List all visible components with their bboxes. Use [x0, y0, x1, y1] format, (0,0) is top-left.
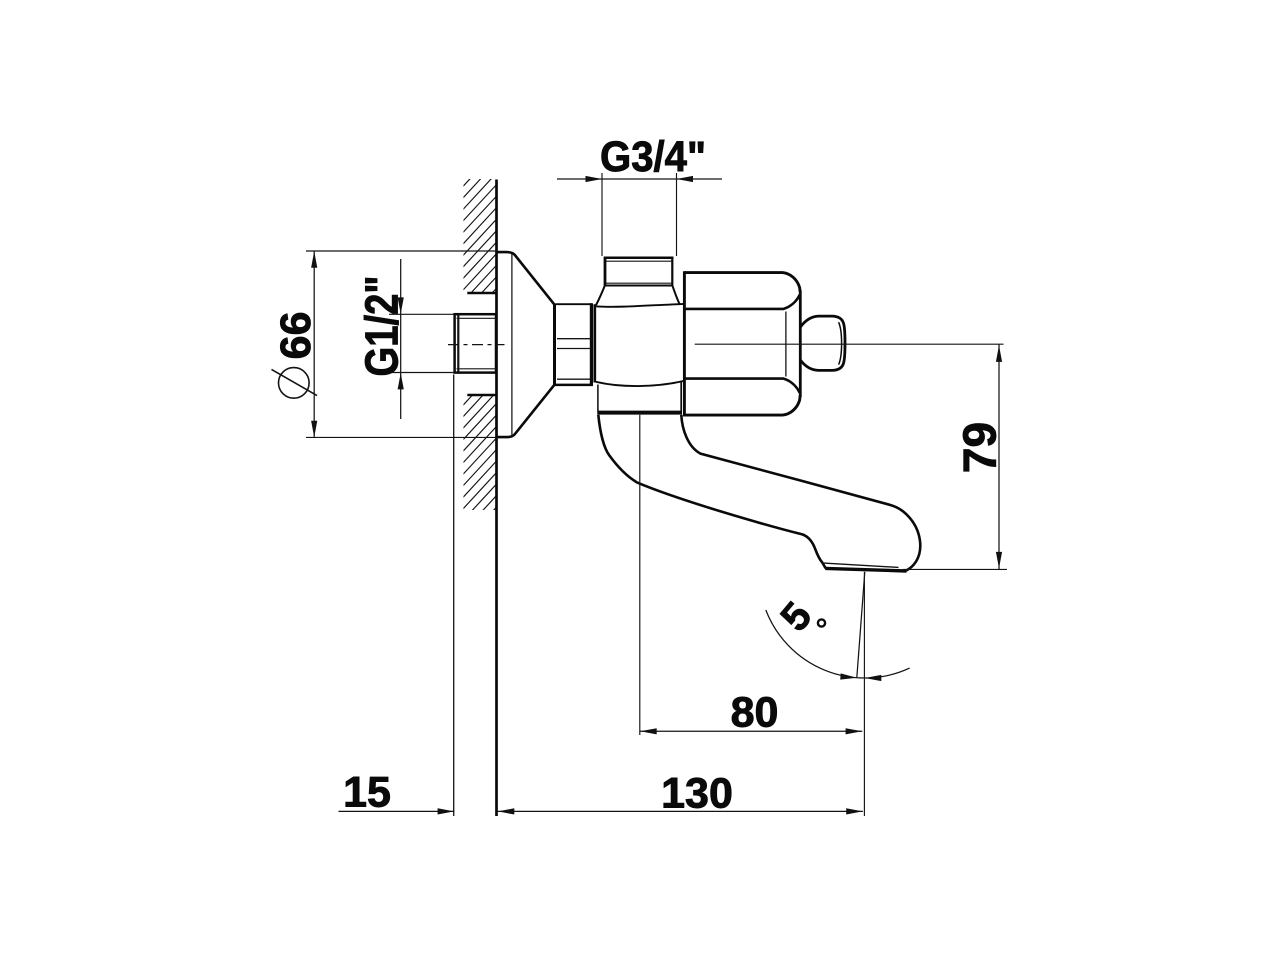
svg-text:79: 79 — [954, 422, 1006, 473]
svg-text:G1/2": G1/2" — [356, 276, 408, 377]
svg-text:130: 130 — [661, 770, 733, 818]
svg-text:66: 66 — [272, 311, 320, 359]
svg-text:15: 15 — [343, 768, 391, 816]
svg-text:80: 80 — [731, 688, 779, 736]
svg-text:G3/4": G3/4" — [600, 133, 706, 181]
